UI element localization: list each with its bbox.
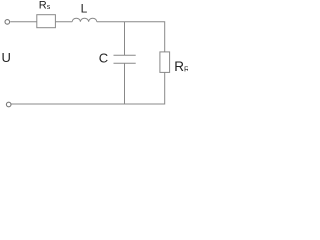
- terminal bottom-left: [6, 102, 11, 107]
- wire RR to bottom rail: [11, 72, 165, 104]
- svg-text:RR: RR: [174, 59, 188, 74]
- capacitor C top plate: [114, 54, 136, 56]
- svg-text:C: C: [99, 50, 108, 65]
- svg-text:L: L: [81, 2, 88, 16]
- capacitor C bottom plate: [114, 62, 136, 64]
- wire capacitor to bottom rail: [124, 63, 126, 104]
- terminal top-left: [5, 20, 10, 25]
- inductor L: [72, 18, 97, 22]
- wire L to right corner: [97, 22, 165, 52]
- svg-text:U: U: [2, 50, 11, 65]
- wire node to capacitor: [124, 22, 126, 56]
- resistor R1 (Rs): [37, 15, 56, 28]
- svg-text:Rs: Rs: [39, 0, 51, 12]
- wire top-left to Rs: [10, 21, 37, 23]
- wire Rs to L: [55, 21, 72, 23]
- resistor R2 (RR): [160, 52, 170, 73]
